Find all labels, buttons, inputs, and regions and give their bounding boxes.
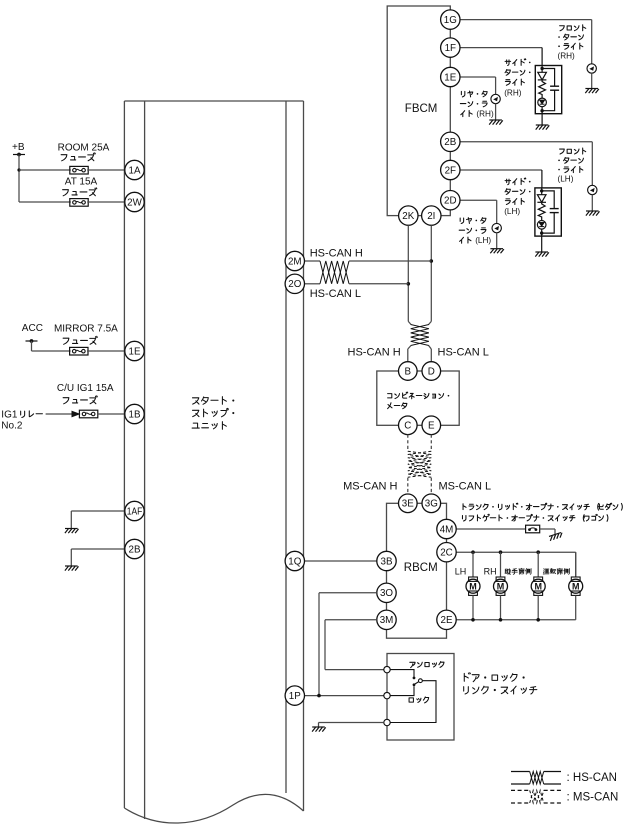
svg-text:C/U IG1 15A: C/U IG1 15A [57, 383, 114, 394]
svg-text:2O: 2O [288, 279, 301, 290]
svg-text:3M: 3M [380, 615, 394, 626]
svg-text:2B: 2B [444, 137, 456, 148]
svg-text:MIRROR 7.5A: MIRROR 7.5A [54, 324, 118, 335]
svg-text:M: M [469, 582, 477, 592]
svg-text:MS-CAN L: MS-CAN L [439, 480, 492, 492]
svg-text:(RH): (RH) [476, 110, 494, 119]
svg-text:1E: 1E [444, 72, 456, 83]
svg-text:(LH): (LH) [558, 175, 574, 184]
svg-text:AT 15A: AT 15A [65, 177, 98, 188]
svg-text:2E: 2E [441, 615, 453, 626]
svg-text:2B: 2B [129, 544, 141, 555]
svg-text:2D: 2D [444, 196, 457, 207]
svg-text:MS-CAN H: MS-CAN H [343, 480, 397, 492]
svg-text:FBCM: FBCM [405, 103, 438, 115]
svg-text:RH: RH [484, 566, 497, 576]
svg-text:1A: 1A [129, 165, 141, 176]
svg-text:1AF: 1AF [127, 506, 143, 517]
svg-text:3O: 3O [380, 588, 393, 599]
svg-text:1Q: 1Q [288, 556, 301, 567]
svg-text:2M: 2M [288, 256, 302, 267]
svg-text:+B: +B [12, 142, 25, 153]
svg-text:M: M [497, 582, 505, 592]
svg-text:1F: 1F [445, 43, 456, 54]
svg-text:M: M [572, 582, 580, 592]
svg-text:(RH): (RH) [504, 88, 522, 97]
svg-text:(LH): (LH) [504, 207, 520, 216]
svg-text:2W: 2W [127, 197, 142, 208]
svg-text:2C: 2C [440, 548, 453, 559]
svg-text:M: M [534, 582, 542, 592]
svg-text:1P: 1P [289, 691, 301, 702]
svg-text:3B: 3B [381, 556, 393, 567]
svg-text:C: C [404, 421, 411, 432]
svg-text:RBCM: RBCM [404, 562, 438, 574]
svg-text:2F: 2F [445, 165, 456, 176]
svg-text:3E: 3E [402, 499, 414, 510]
svg-text:B: B [405, 366, 412, 377]
svg-text:E: E [428, 421, 435, 432]
svg-text:4M: 4M [440, 524, 454, 535]
svg-text:1B: 1B [129, 409, 141, 420]
svg-text:HS-CAN H: HS-CAN H [310, 248, 363, 260]
svg-text:ACC: ACC [22, 323, 43, 334]
svg-text:1G: 1G [444, 15, 457, 26]
svg-text:HS-CAN L: HS-CAN L [438, 347, 489, 359]
svg-text:(RH): (RH) [558, 51, 576, 60]
svg-text:No.2: No.2 [1, 421, 23, 432]
svg-text:IG1: IG1 [1, 410, 18, 421]
svg-text:2K: 2K [402, 211, 414, 222]
svg-text:HS-CAN H: HS-CAN H [348, 347, 401, 359]
svg-text:LH: LH [455, 566, 467, 576]
svg-text:1E: 1E [129, 346, 141, 357]
svg-text:ROOM 25A: ROOM 25A [58, 143, 110, 154]
svg-text:(LH): (LH) [475, 236, 491, 245]
svg-text:3G: 3G [425, 499, 438, 510]
svg-text:D: D [428, 366, 435, 377]
svg-text:HS-CAN L: HS-CAN L [310, 288, 361, 300]
svg-text:: HS-CAN: : HS-CAN [567, 772, 617, 784]
svg-text:2I: 2I [427, 211, 435, 222]
svg-text:: MS-CAN: : MS-CAN [567, 792, 619, 804]
